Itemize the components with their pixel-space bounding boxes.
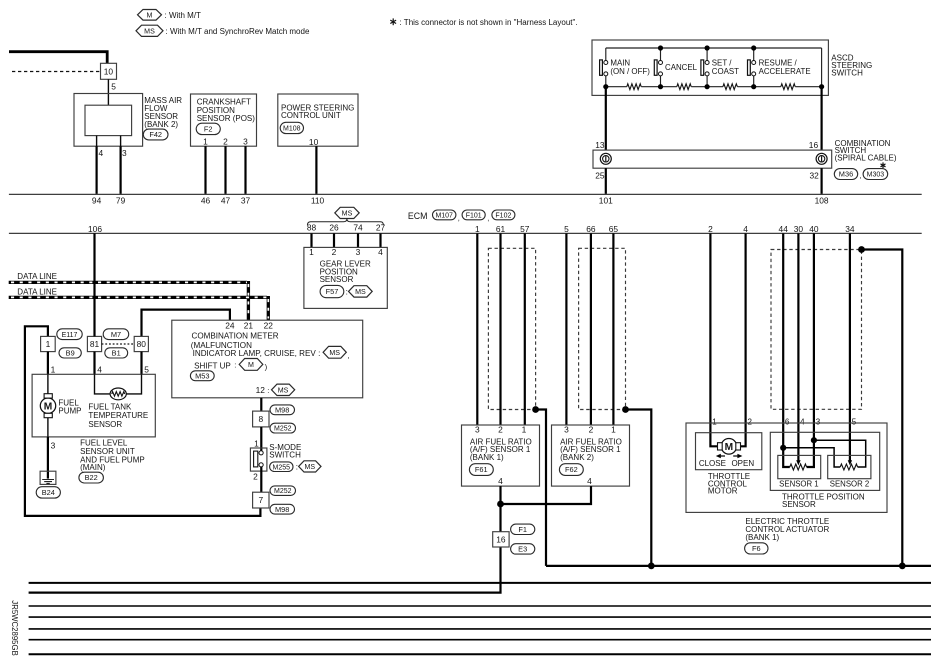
svg-text:E117: E117 xyxy=(62,332,78,339)
junction ASCD top bus node 3 xyxy=(751,45,756,50)
fuel tank temperature sensor (thermistor) xyxy=(110,388,126,400)
svg-text:F1: F1 xyxy=(518,525,527,534)
svg-text:M108: M108 xyxy=(283,126,301,133)
svg-text:SENSOR (POS): SENSOR (POS) xyxy=(197,114,256,123)
svg-text:OPEN: OPEN xyxy=(731,459,754,468)
svg-text:1: 1 xyxy=(309,247,314,257)
switch contact CANCEL xyxy=(654,60,662,76)
connector label F1 xyxy=(511,524,535,534)
svg-text:CONTROL UNIT: CONTROL UNIT xyxy=(281,111,341,120)
connector label M255 xyxy=(270,462,293,472)
connector label M98 (upper) xyxy=(270,405,295,415)
ASCD right end vertical wire xyxy=(821,48,823,87)
ASCD internal bus bottom wire (segments between resistors) xyxy=(606,86,822,88)
svg-text:5: 5 xyxy=(144,364,149,374)
svg-text:106: 106 xyxy=(88,224,102,234)
svg-text:MS: MS xyxy=(342,209,353,217)
in-line connector 16 (F1/E3) xyxy=(493,532,509,547)
wire: ECM 88 to gear lever sensor xyxy=(310,233,312,247)
svg-text:SENSOR 2: SENSOR 2 xyxy=(830,480,869,489)
svg-text:F102: F102 xyxy=(495,213,511,220)
svg-text:3: 3 xyxy=(356,247,361,257)
wire: thermistor to fuel unit pin 5 xyxy=(126,374,141,394)
svg-text:1: 1 xyxy=(46,339,51,349)
close arrow xyxy=(716,454,725,458)
wire: connector 10 to MAF inner unit xyxy=(107,79,109,105)
svg-text:65: 65 xyxy=(609,224,619,234)
svg-text:26: 26 xyxy=(329,223,339,233)
wire: ECM 1 to A/F sensor xyxy=(476,233,478,425)
junction ASCD bottom bus node 1 xyxy=(658,84,663,89)
AF1 pin labels 3 2 1 xyxy=(475,424,527,434)
mass air flow sensor F42 outer box xyxy=(74,94,143,147)
connector label M7 xyxy=(103,329,129,340)
svg-text:3: 3 xyxy=(816,417,821,426)
svg-text:1: 1 xyxy=(203,137,208,147)
in-line connector 10 xyxy=(101,63,117,79)
fuel pump caption xyxy=(58,399,81,416)
wire: ECM 74 to gear lever sensor xyxy=(357,233,359,247)
svg-text:SENSOR: SENSOR xyxy=(782,500,816,509)
junction TPS pin3 branch xyxy=(811,437,817,443)
wire: bus line 4 xyxy=(29,605,931,607)
connector label F6 xyxy=(745,543,768,554)
marker hexagon MS (with M/T and SynchroRev) xyxy=(136,25,163,36)
wire: switch CANCEL stems xyxy=(660,48,662,87)
resistor in ASCD (MAIN) xyxy=(627,84,641,90)
wire: ECM 4 to throttle motor pin 2 xyxy=(741,233,746,446)
svg-text:MS: MS xyxy=(329,349,340,357)
wire: switch RESUME/ACCELERATE stems xyxy=(753,48,755,87)
close/open labels xyxy=(699,459,755,468)
connector label M98 (lower) xyxy=(270,504,295,514)
svg-text:110: 110 xyxy=(311,196,325,206)
svg-text:80: 80 xyxy=(137,339,147,349)
wire: pump to fuel unit pin 3 xyxy=(47,418,49,437)
svg-text:37: 37 xyxy=(241,196,251,206)
sensor labels xyxy=(779,480,869,489)
svg-text:CANCEL: CANCEL xyxy=(665,63,698,72)
svg-text:COMBINATION METER: COMBINATION METER xyxy=(192,332,279,341)
wire: CKP pin 1 to ECM 46 xyxy=(204,146,206,194)
connector label E117 xyxy=(57,329,82,340)
junction ASCD bottom bus node 3 xyxy=(751,84,756,89)
svg-text:SWITCH: SWITCH xyxy=(269,451,301,460)
svg-text:F2: F2 xyxy=(204,125,213,134)
wire: shield ground bus xyxy=(546,565,931,567)
S-mode switch box xyxy=(250,448,267,471)
svg-text:1: 1 xyxy=(475,224,480,234)
connector label B24 xyxy=(36,487,60,498)
svg-text:88: 88 xyxy=(307,223,317,233)
svg-text:MS: MS xyxy=(278,386,289,394)
svg-text:5: 5 xyxy=(564,224,569,234)
connector label B22 xyxy=(79,472,104,483)
svg-text:4: 4 xyxy=(498,476,503,486)
svg-text:: This connector is not shown: : This connector is not shown in "Harnes… xyxy=(400,18,578,27)
wire: ASCD left to spiral cable 13 xyxy=(605,87,607,150)
in-line connector 7 (M252/M98) xyxy=(253,492,269,508)
wire: ASCD right to spiral cable 16 xyxy=(820,87,822,150)
wire: shield drain B to ground bus xyxy=(626,410,652,566)
sensor 1 resistor xyxy=(790,464,807,470)
wire: ECM 5 to A/F sensor xyxy=(565,233,567,425)
svg-text:27: 27 xyxy=(376,223,386,233)
wire: S-mode switch pin 2 to connector 7 xyxy=(260,467,262,492)
throttle control motor caption xyxy=(708,472,750,496)
connector label F62 xyxy=(559,464,583,476)
svg-text:B24: B24 xyxy=(42,488,55,497)
svg-text:101: 101 xyxy=(599,196,613,206)
connector label E3 xyxy=(511,544,535,554)
svg-text:M: M xyxy=(248,361,254,369)
svg-text:74: 74 xyxy=(353,223,363,233)
svg-text:10: 10 xyxy=(309,137,319,147)
connector label F2 xyxy=(196,123,220,134)
TPS internal branch: pin6 to sensor2 low side xyxy=(783,448,840,467)
svg-text:M255: M255 xyxy=(273,464,291,471)
wire: spiral 32 to ECM 108 xyxy=(820,168,822,194)
svg-text:B22: B22 xyxy=(85,473,98,482)
ASCD switch labels xyxy=(610,59,810,76)
ASCD caption xyxy=(831,53,872,77)
svg-text:8: 8 xyxy=(258,414,263,424)
svg-text:1: 1 xyxy=(51,364,56,374)
svg-text:108: 108 xyxy=(815,196,829,206)
ASCD internal bus top wire xyxy=(606,47,822,49)
svg-text:TEMPERATURE: TEMPERATURE xyxy=(88,411,148,420)
bracket over MS pins 88 26 74 27 xyxy=(307,219,383,226)
svg-text:M252: M252 xyxy=(274,488,292,495)
svg-text:SENSOR 1: SENSOR 1 xyxy=(779,480,818,489)
svg-text:4: 4 xyxy=(587,476,592,486)
svg-text:2: 2 xyxy=(253,472,258,482)
wire: switch MAIN stems xyxy=(605,48,607,87)
svg-text:47: 47 xyxy=(221,196,231,206)
connector label F101 xyxy=(462,210,485,220)
wire: bus line 6 xyxy=(29,628,931,630)
svg-text:M53: M53 xyxy=(195,371,209,380)
connector label F42 xyxy=(143,129,168,140)
in-line connector 80 (M7/B1) xyxy=(134,336,148,351)
wire: connector 8 to S-mode switch pin 1 xyxy=(260,427,262,451)
sensor 1 box xyxy=(778,455,821,478)
CKP pin labels 1 2 3 xyxy=(203,137,248,147)
svg-text:ACCELERATE: ACCELERATE xyxy=(759,67,811,76)
svg-text:B1: B1 xyxy=(112,349,121,358)
svg-text:13: 13 xyxy=(595,140,605,150)
wire: CKP pin 3 to ECM 37 xyxy=(244,146,246,194)
svg-text:M107: M107 xyxy=(435,213,453,220)
svg-text:57: 57 xyxy=(520,224,530,234)
fuel level sensor unit caption xyxy=(80,438,145,472)
svg-text:,: , xyxy=(348,351,350,360)
svg-text:(ON / OFF): (ON / OFF) xyxy=(610,67,650,76)
svg-text:5: 5 xyxy=(852,417,857,426)
svg-text:94: 94 xyxy=(92,196,102,206)
junction A/F heater ground junction xyxy=(497,501,504,508)
wire: long run from S-mode connector 7 to fuel pump connector 1 xyxy=(25,326,261,516)
wire: AF2 pin 4 to junction xyxy=(501,486,592,504)
switch contact RESUME/ACCELERATE xyxy=(748,60,756,76)
AF1 caption xyxy=(470,437,532,462)
svg-text:3: 3 xyxy=(122,148,127,158)
svg-text:1: 1 xyxy=(522,424,527,434)
svg-text:24: 24 xyxy=(225,321,235,331)
svg-text:21: 21 xyxy=(244,321,254,331)
marker hexagon MS for F57 xyxy=(349,286,373,297)
wire: ECM 57 to A/F sensor xyxy=(524,233,526,425)
wire: MAF pin 3 internal xyxy=(120,136,122,147)
svg-text:: With M/T and SynchroRev Matc: : With M/T and SynchroRev Match mode xyxy=(166,27,310,36)
MAF sensor caption xyxy=(144,96,182,129)
connector label F61 xyxy=(469,464,493,476)
mass air flow sensor inner element box xyxy=(85,105,132,135)
connector label M107 xyxy=(433,210,456,220)
svg-text:F101: F101 xyxy=(466,213,482,220)
wire: bus line 8 xyxy=(29,653,931,655)
air fuel ratio sensor 1 (bank 2) box xyxy=(552,425,630,486)
junction TPS pin6 branch xyxy=(780,445,786,451)
svg-text:2: 2 xyxy=(589,424,594,434)
ECM top pin numbers xyxy=(92,196,829,206)
marker hexagon MS for S-mode switch xyxy=(299,461,321,472)
resistor in ASCD (CANCEL) xyxy=(677,84,691,90)
AF2 pin labels 3 2 1 xyxy=(564,424,616,434)
svg-text:16: 16 xyxy=(496,535,506,545)
wire: connector 81 to fuel unit pin 4 xyxy=(93,352,95,375)
spiral cable contact right xyxy=(816,153,827,164)
wire: connector 80 to fuel unit pin 5 xyxy=(140,352,142,375)
wire: ECM 40 to TPS pin 3 xyxy=(807,233,814,467)
crankshaft position sensor box xyxy=(191,94,257,146)
svg-text:F62: F62 xyxy=(565,465,578,474)
connector label M303 xyxy=(863,169,888,180)
ASCD steering switch box xyxy=(592,40,828,95)
svg-text:4: 4 xyxy=(378,247,383,257)
throttle position sensor box xyxy=(770,432,879,490)
connector label M108 xyxy=(280,122,303,133)
svg-text:,: , xyxy=(487,213,489,222)
svg-text:34: 34 xyxy=(845,224,855,234)
svg-text:10: 10 xyxy=(104,67,114,77)
note: star connector not shown in harness layout xyxy=(390,18,396,25)
svg-text:JR5WC2895GB: JR5WC2895GB xyxy=(10,600,19,655)
switch contact MAIN xyxy=(600,60,608,76)
svg-text:SWITCH: SWITCH xyxy=(831,69,863,78)
svg-text:(BANK 2): (BANK 2) xyxy=(560,453,594,462)
connector label F102 xyxy=(492,210,515,220)
svg-text:PUMP: PUMP xyxy=(58,407,81,416)
svg-text:44: 44 xyxy=(779,224,789,234)
wire: ECM 66 to A/F sensor xyxy=(590,233,592,425)
svg-text:): ) xyxy=(265,362,268,371)
wire: MAF pin 4 to ECM 94 xyxy=(95,146,97,194)
wire: DATA LINE 1 (striped) xyxy=(9,281,249,320)
connector label M252 (upper) xyxy=(270,423,296,433)
svg-text:1: 1 xyxy=(611,424,616,434)
svg-text:B9: B9 xyxy=(66,349,75,358)
svg-text:E3: E3 xyxy=(518,545,527,554)
svg-text::: : xyxy=(234,361,236,370)
ETCA caption xyxy=(745,517,829,542)
fuel tank temperature sensor caption xyxy=(88,403,148,429)
combination meter box xyxy=(172,320,363,398)
svg-text:M36: M36 xyxy=(839,170,853,179)
wire: MAF pin 3 to ECM 79 xyxy=(119,146,121,194)
svg-text:F42: F42 xyxy=(149,130,162,139)
wire: bus line 7 xyxy=(29,639,931,641)
marker hexagon MS in meter caption xyxy=(323,346,346,358)
svg-text:M303: M303 xyxy=(867,172,885,179)
marker hexagon M in meter caption xyxy=(239,359,263,371)
resistor in ASCD (SET) xyxy=(723,84,738,90)
svg-text:(SPIRAL CABLE): (SPIRAL CABLE) xyxy=(835,154,897,163)
svg-text:DATA LINE: DATA LINE xyxy=(17,287,57,296)
wire: bus line 5 xyxy=(29,616,931,618)
svg-text:M: M xyxy=(44,402,53,413)
wire: ECM 106 to connector 81 xyxy=(93,233,95,336)
svg-text:,: , xyxy=(458,213,460,222)
combination meter caption xyxy=(191,332,321,359)
dotted connector tie 81-80 xyxy=(102,343,135,345)
svg-text:F57: F57 xyxy=(326,287,339,296)
svg-text:2: 2 xyxy=(708,224,713,234)
wire: thick feed to MAF sensor xyxy=(9,52,107,64)
junction shield C drain xyxy=(858,246,865,253)
S-mode switch caption xyxy=(269,443,301,460)
svg-text:5: 5 xyxy=(111,82,116,92)
shield box around ECM 44/30/40/34 wires xyxy=(771,250,862,410)
svg-text:22: 22 xyxy=(264,321,274,331)
svg-text:M98: M98 xyxy=(275,405,289,414)
wire: ECM 26 to gear lever sensor xyxy=(333,233,335,247)
svg-text:M7: M7 xyxy=(111,330,121,339)
svg-text:,: , xyxy=(859,171,861,180)
star marker for M303 xyxy=(881,162,886,168)
svg-text:FUEL TANK: FUEL TANK xyxy=(88,403,132,412)
svg-text:3: 3 xyxy=(475,424,480,434)
in-line connector 1 (E117/B9) xyxy=(41,336,56,351)
svg-text:32: 32 xyxy=(810,171,820,181)
svg-text:25: 25 xyxy=(595,171,605,181)
svg-text:4: 4 xyxy=(743,224,748,234)
svg-text:: With M/T: : With M/T xyxy=(165,11,202,20)
connector label B1 xyxy=(105,348,128,358)
svg-text:6: 6 xyxy=(785,417,790,426)
svg-text:M: M xyxy=(725,442,734,453)
junction ground bus node C xyxy=(899,563,906,570)
wiper arrow sensor 1 xyxy=(796,460,800,465)
power steering control unit box xyxy=(278,94,358,146)
in-line connector 8 (M98/M252) xyxy=(253,411,269,427)
shield box around ECM 66/65 wires xyxy=(579,248,626,409)
wire: fuel unit pin 3 to body ground xyxy=(47,437,49,479)
throttle position sensor caption xyxy=(782,492,865,509)
meter pin labels 24 21 22 xyxy=(225,321,273,331)
wire: shield drain A to ground bus xyxy=(536,410,546,566)
ECM bottom pin numbers xyxy=(88,223,855,234)
spiral cable contact left xyxy=(600,153,611,164)
open arrow xyxy=(733,454,742,458)
air fuel ratio sensor 1 (bank 1) box xyxy=(462,425,540,486)
marker hexagon MS over ECM MS-pins xyxy=(335,207,359,218)
switch contact SET/COAST xyxy=(701,60,709,76)
gear lever pin labels xyxy=(309,247,383,257)
junction ASCD top bus node 1 xyxy=(658,45,663,50)
S-mode switch contact xyxy=(254,451,264,467)
wire: ECM 27 to gear lever sensor xyxy=(379,233,381,247)
fuel pump motor xyxy=(40,394,55,418)
wire: bus line 2 xyxy=(29,582,931,584)
svg-text:40: 40 xyxy=(809,224,819,234)
svg-text:F6: F6 xyxy=(752,544,761,553)
body ground B24 xyxy=(40,471,56,484)
svg-text:4: 4 xyxy=(97,364,102,374)
wire: fuel unit pin 4 to thermistor xyxy=(95,374,111,394)
svg-text:CLOSE: CLOSE xyxy=(699,459,726,468)
PSCU caption xyxy=(281,103,354,120)
shield box around ECM 61/57 wires xyxy=(488,248,535,409)
svg-text:4: 4 xyxy=(99,148,104,158)
svg-text:(BANK 1): (BANK 1) xyxy=(470,453,504,462)
svg-text:4: 4 xyxy=(800,417,805,426)
svg-text::: : xyxy=(296,462,298,471)
svg-text:SENSOR: SENSOR xyxy=(88,420,122,429)
fuel level sensor unit box xyxy=(32,374,155,437)
throttle control motor box xyxy=(696,433,762,470)
wire: connector 1 to fuel unit pin 1 xyxy=(47,352,49,375)
electric throttle control actuator box xyxy=(686,423,887,512)
svg-text:DATA LINE: DATA LINE xyxy=(17,272,57,281)
svg-text:MS: MS xyxy=(144,27,155,35)
svg-text:61: 61 xyxy=(496,224,506,234)
wire: MAF pin 4 internal xyxy=(96,136,98,147)
wire: ECM 34 to TPS pin 5 wiper xyxy=(849,233,851,460)
svg-text::: : xyxy=(267,386,269,395)
marker hexagon M (with M/T) xyxy=(138,10,162,21)
svg-text:M252: M252 xyxy=(274,426,292,433)
connector label F57 xyxy=(320,285,344,297)
svg-text:F61: F61 xyxy=(475,465,488,474)
junction shield A drain xyxy=(532,406,539,413)
svg-text:SENSOR: SENSOR xyxy=(320,275,354,284)
svg-text:2: 2 xyxy=(748,417,753,426)
wire: dashed continuation to connector 10 xyxy=(12,71,101,73)
wiper arrow sensor 2 xyxy=(848,460,852,465)
gear lever position sensor box xyxy=(304,247,387,308)
svg-text:M: M xyxy=(147,11,153,19)
wire: meter pin 12 to connector 8 xyxy=(260,398,262,411)
wire: fuel unit pin1 to pump xyxy=(47,374,49,393)
wire: ECM 2 to throttle motor pin 1 xyxy=(710,233,717,446)
wire: switch SET/COAST stems xyxy=(706,48,708,87)
svg-text:MS: MS xyxy=(304,463,315,471)
ECM bottom boundary line xyxy=(9,232,922,234)
svg-text:MS: MS xyxy=(355,288,366,296)
resistor in ASCD (RESUME) xyxy=(781,84,795,90)
svg-text:3: 3 xyxy=(564,424,569,434)
svg-text:ECM: ECM xyxy=(408,211,428,221)
wire: spiral 25 to ECM 101 xyxy=(605,168,607,194)
wire: shield drain C to ground bus xyxy=(862,250,903,566)
svg-text:2: 2 xyxy=(332,247,337,257)
wire: AF1 pin 4 through connector 16 to left bus xyxy=(29,486,501,592)
svg-text:1: 1 xyxy=(254,439,259,449)
wire: DATA LINE 2 (striped) xyxy=(9,296,269,320)
connector label M53 xyxy=(190,371,214,381)
svg-text:COAST: COAST xyxy=(712,67,739,76)
